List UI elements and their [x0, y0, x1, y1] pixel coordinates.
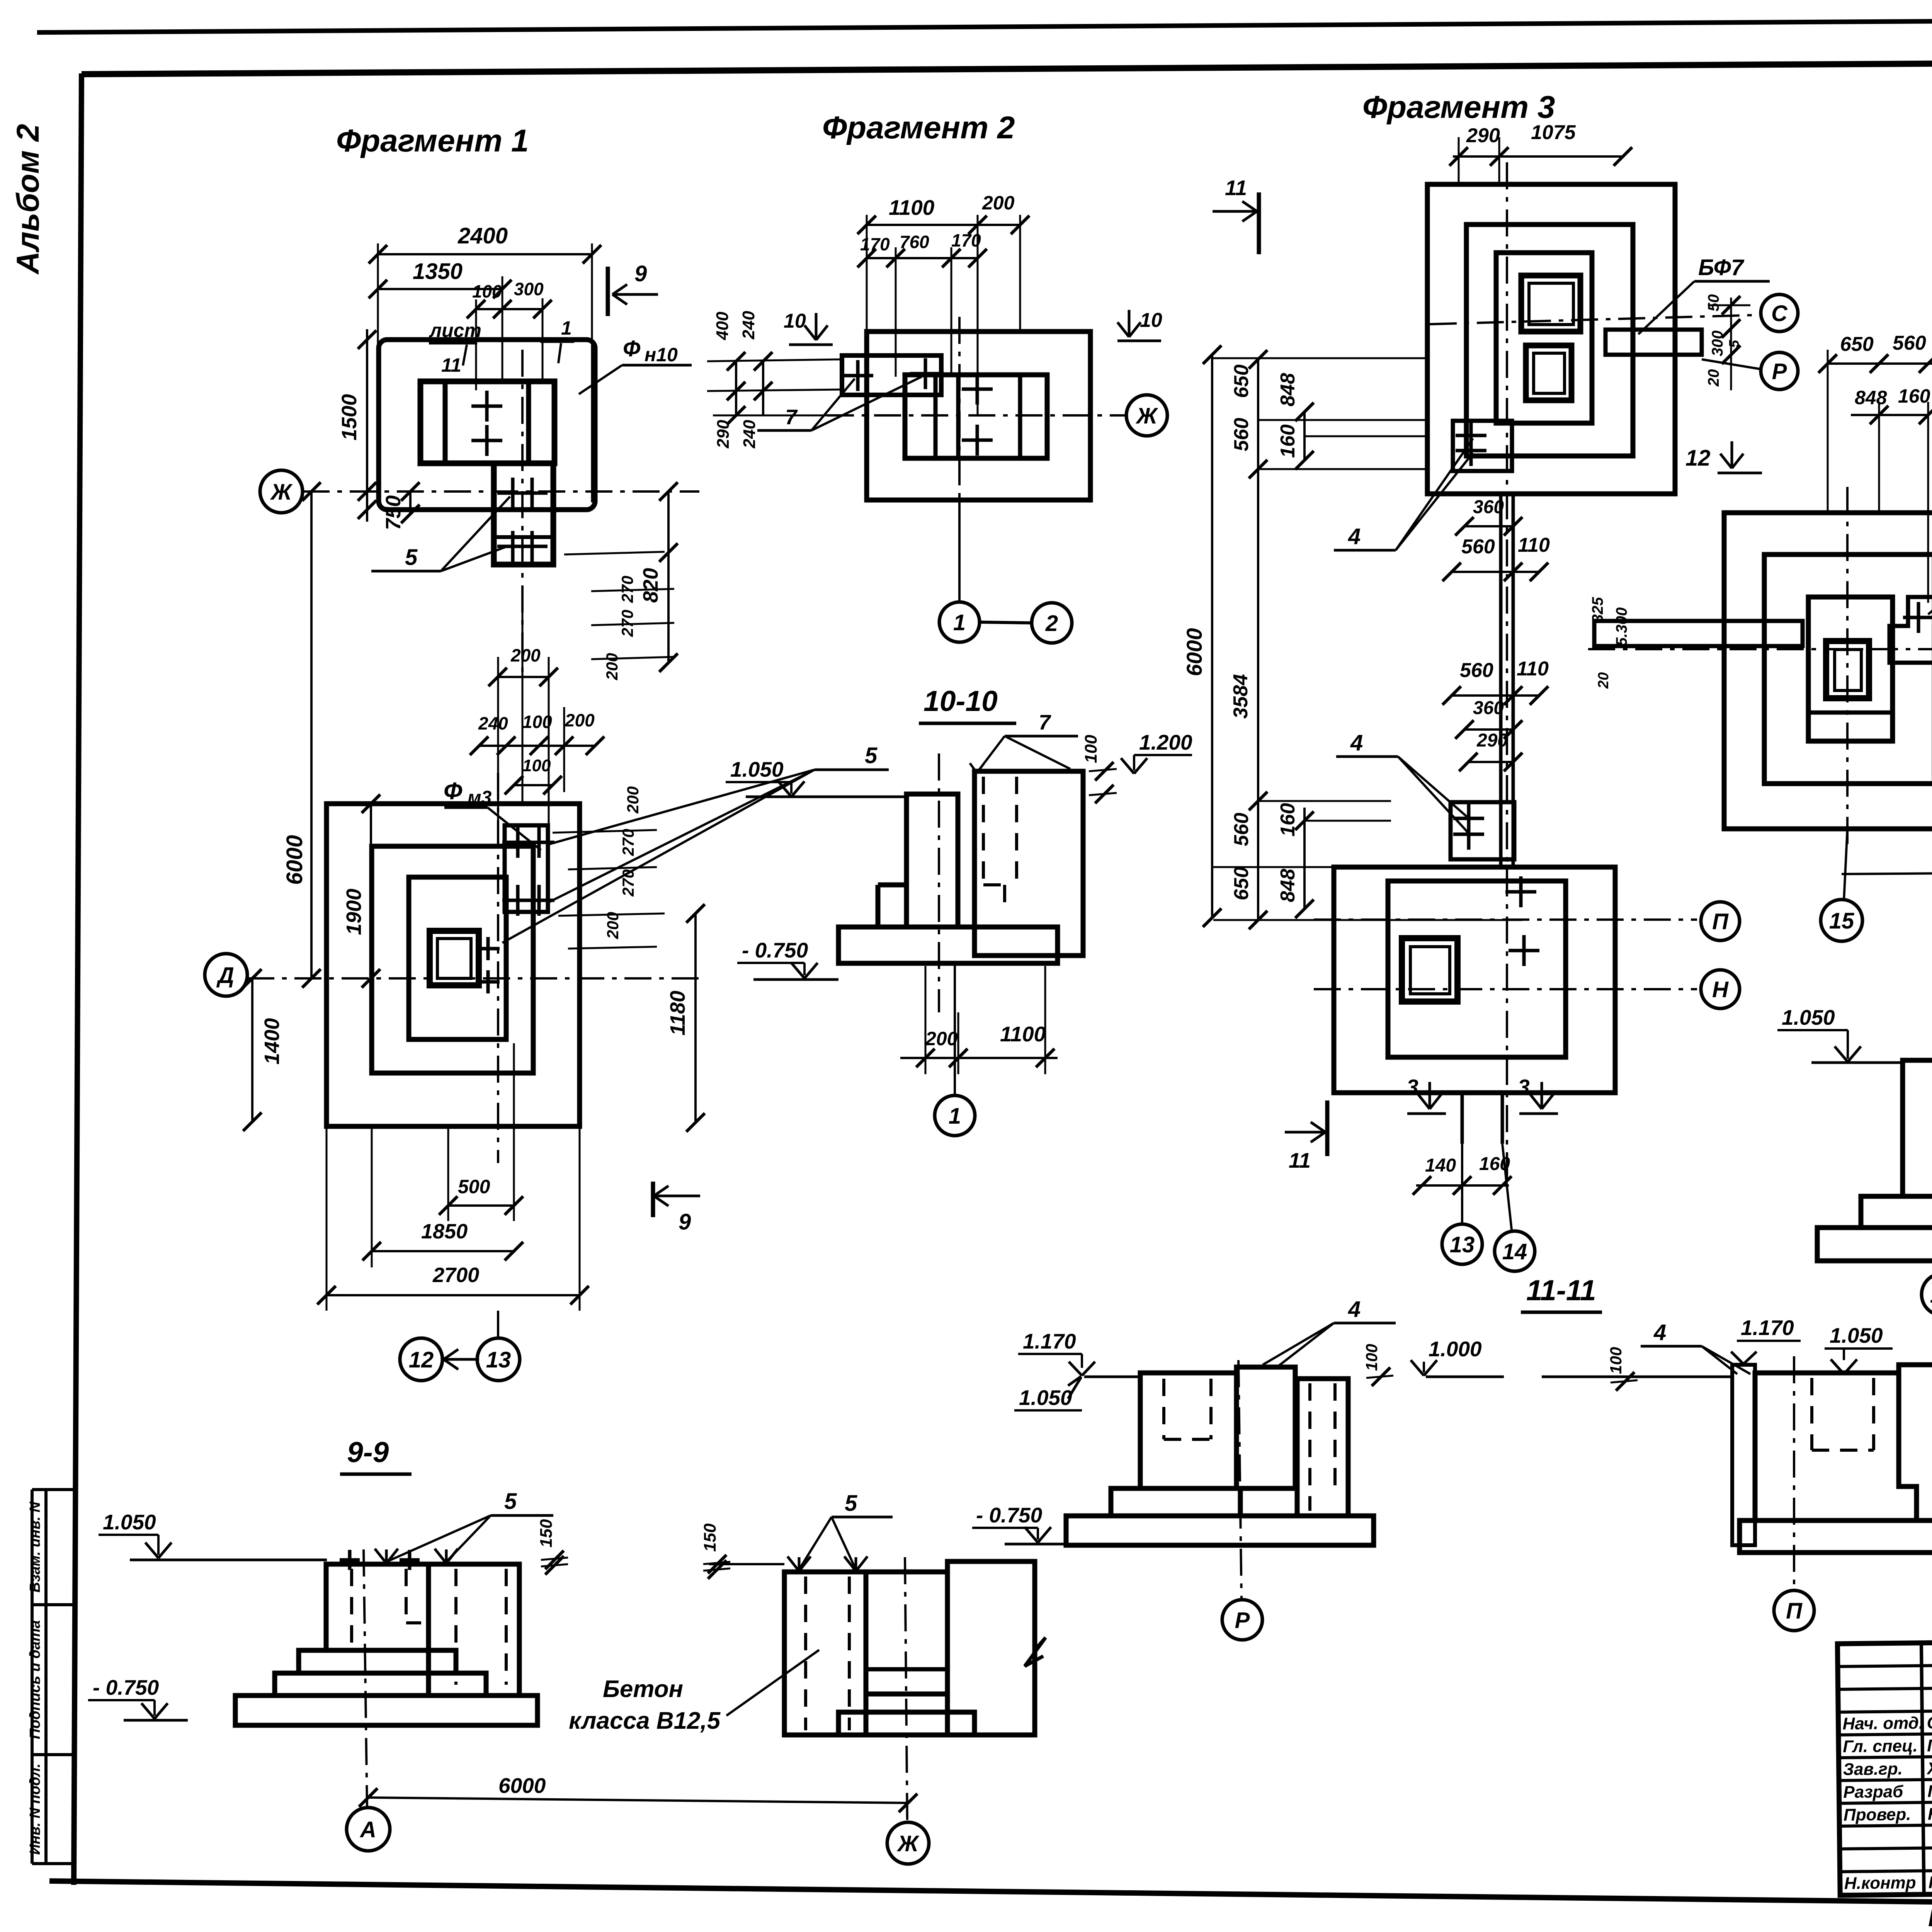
- F3 lower leg: [1461, 1093, 1464, 1144]
- svg-text:560: 560: [1893, 332, 1926, 354]
- svg-text:БФ7: БФ7: [1698, 255, 1745, 280]
- svg-text:13: 13: [486, 1347, 511, 1372]
- svg-text:10: 10: [1140, 309, 1162, 332]
- F3 vertical dim column 3: [1303, 412, 1306, 460]
- anchor bolts leg: [497, 492, 528, 495]
- frame left border: [74, 73, 82, 1885]
- Фм3 column void outer: [430, 931, 479, 985]
- svg-text:200: 200: [604, 912, 622, 939]
- svg-text:11: 11: [441, 354, 461, 376]
- axis circle П (11-11): [1774, 1590, 1814, 1631]
- svg-text:1350: 1350: [413, 259, 463, 284]
- 9-9 right left block: [784, 1572, 866, 1735]
- svg-text:Ж: Ж: [270, 480, 293, 505]
- svg-text:160: 160: [1277, 424, 1299, 458]
- axis circle 2: [1032, 603, 1072, 643]
- F4 left void outer: [1826, 641, 1869, 698]
- 9-9 step2: [275, 1673, 486, 1696]
- svg-text:5: 5: [504, 1489, 517, 1514]
- line to circle 15: [1844, 829, 1847, 900]
- svg-text:240: 240: [478, 713, 508, 733]
- F3 step2: [1466, 224, 1633, 456]
- svg-text:848: 848: [1855, 387, 1887, 408]
- svg-text:240: 240: [739, 311, 758, 340]
- svg-text:1100: 1100: [889, 196, 935, 219]
- F4 left anchor bolts: [1903, 616, 1932, 619]
- svg-text:1.170: 1.170: [1741, 1316, 1794, 1340]
- svg-text:6000: 6000: [498, 1774, 546, 1798]
- ground line (12-12 left): [1811, 1061, 1903, 1064]
- 11-11 П main block: [1755, 1373, 1917, 1520]
- svg-text:848: 848: [1277, 373, 1299, 406]
- axis circle Ж2: [1126, 395, 1167, 436]
- svg-text:1.050: 1.050: [103, 1510, 156, 1534]
- F3 anchor block: [1453, 421, 1512, 471]
- svg-text:360: 360: [1473, 698, 1504, 718]
- svg-text:11-11: 11-11: [1526, 1274, 1596, 1306]
- Н axis: [1314, 988, 1697, 990]
- svg-text:3: 3: [1518, 1075, 1530, 1099]
- 11-11 П base: [1740, 1520, 1932, 1553]
- right dim lines 270 270 200: [564, 552, 665, 554]
- F4 left plan step3: [1808, 597, 1893, 741]
- leg extension verticals: [497, 657, 499, 827]
- line to circle 1: [958, 500, 961, 602]
- svg-text:1.200: 1.200: [1139, 730, 1192, 754]
- 10-10 stakan dashed: [982, 777, 985, 885]
- F3 lower plan outer: [1334, 867, 1615, 1093]
- axis vertical fragment1: [521, 350, 524, 680]
- section marker 9 bottom: [651, 1182, 655, 1217]
- svg-text:лист: лист: [429, 320, 481, 341]
- svg-text:750: 750: [382, 495, 405, 530]
- svg-text:2700: 2700: [432, 1264, 479, 1287]
- svg-text:20: 20: [1705, 369, 1722, 387]
- paper top edge: [37, 17, 1932, 32]
- Фм3 column void inner: [437, 939, 471, 978]
- 11-11 right block dashes: [1308, 1383, 1311, 1511]
- 11-11 П tall block: [1899, 1365, 1932, 1553]
- inner block bolts: [962, 388, 993, 391]
- tall block break: [1025, 1638, 1046, 1666]
- svg-text:5: 5: [405, 545, 418, 570]
- 9-9 right base: [838, 1712, 975, 1735]
- svg-text:200: 200: [624, 786, 642, 814]
- F4 left anchor plate: [1889, 597, 1932, 663]
- Фм3 step 3: [409, 877, 506, 1039]
- 11-11 П axis: [1793, 1356, 1795, 1590]
- С axis line: [1430, 315, 1760, 324]
- Фн10 slab outline: [379, 340, 595, 510]
- svg-text:Н.контр: Н.контр: [1844, 1873, 1916, 1893]
- svg-text:м3: м3: [468, 787, 492, 808]
- axis circle Н: [1701, 970, 1740, 1009]
- svg-text:Д: Д: [216, 963, 234, 988]
- svg-text:1400: 1400: [260, 1018, 284, 1065]
- svg-text:290: 290: [1476, 730, 1508, 751]
- svg-text:Провер.: Провер.: [1844, 1805, 1911, 1825]
- svg-text:6000: 6000: [282, 835, 307, 885]
- anchor ticks top (9-9 left): [340, 1558, 360, 1562]
- F3 slab outer: [1427, 184, 1675, 494]
- svg-text:- 0.750: - 0.750: [976, 1503, 1043, 1527]
- svg-text:11: 11: [1289, 1148, 1311, 1172]
- svg-text:2400: 2400: [457, 223, 508, 248]
- svg-text:1.050: 1.050: [1019, 1386, 1072, 1410]
- Фм3 slab outer: [327, 804, 580, 1126]
- F3 void 2 inner: [1534, 353, 1565, 393]
- Fragment 2 inner block: [905, 375, 1047, 458]
- dim 1850: [372, 1250, 514, 1252]
- svg-text:650: 650: [1840, 333, 1874, 355]
- svg-text:- 0.750: - 0.750: [742, 938, 808, 962]
- П axis: [1314, 918, 1697, 921]
- svg-text:270: 270: [618, 610, 636, 637]
- svg-text:П: П: [1786, 1599, 1803, 1624]
- dim 2400: [378, 253, 592, 255]
- svg-text:200: 200: [510, 645, 541, 665]
- section marker 9 top: [606, 267, 610, 316]
- 9-9 right middle block: [866, 1572, 947, 1694]
- svg-text:560: 560: [1461, 536, 1495, 558]
- axis circle 1 (10-10): [935, 1095, 975, 1136]
- svg-text:14: 14: [1502, 1239, 1527, 1264]
- svg-text:1180: 1180: [666, 991, 689, 1036]
- 9-9 axis Ж: [905, 1557, 907, 1823]
- axis circle 13 (f3): [1442, 1224, 1482, 1264]
- callout 1: [540, 340, 574, 343]
- axis circle С: [1761, 294, 1798, 332]
- 11-11 left main block: [1140, 1373, 1236, 1488]
- frame bottom border: [49, 1881, 1932, 1910]
- svg-text:12: 12: [1685, 446, 1711, 471]
- svg-text:Альбом 2: Альбом 2: [10, 124, 46, 275]
- 11-11 П stakan dashed: [1810, 1378, 1813, 1450]
- svg-text:270: 270: [618, 576, 636, 603]
- svg-text:С: С: [1771, 301, 1788, 326]
- БФ7 beam: [1605, 330, 1702, 355]
- svg-text:1900: 1900: [342, 889, 366, 935]
- dim 6000 vertical: [310, 492, 313, 978]
- svg-text:1.050: 1.050: [730, 757, 784, 781]
- svg-text:10: 10: [784, 310, 806, 332]
- svg-text:150: 150: [537, 1519, 556, 1548]
- svg-text:А: А: [359, 1817, 376, 1842]
- axis circle Д: [205, 954, 247, 996]
- svg-text:200: 200: [565, 710, 595, 730]
- svg-text:560: 560: [1230, 813, 1253, 846]
- axis circle 13: [477, 1338, 520, 1381]
- ground line left (10-10): [746, 796, 906, 798]
- plate bolts: [842, 374, 873, 378]
- dim 6000 (9-9): [368, 1798, 908, 1803]
- F3 vertical dim column 2: [1257, 359, 1259, 920]
- Фм3 right dims 200 270 270: [553, 830, 657, 833]
- F3 anchor bolts: [1456, 434, 1486, 437]
- F3 void 1 outer: [1521, 276, 1580, 332]
- lines to circles 13 14: [1461, 1144, 1463, 1223]
- svg-text:- 0.750: - 0.750: [93, 1675, 159, 1699]
- svg-text:1.050: 1.050: [1782, 1005, 1835, 1029]
- F4 left void inner: [1835, 650, 1861, 690]
- svg-text:160: 160: [1898, 385, 1930, 407]
- svg-text:16: 16: [1930, 1282, 1932, 1308]
- 11-11 left stakan dashed: [1162, 1379, 1165, 1439]
- 10-10 axis: [938, 753, 940, 1012]
- dim 1900 left: [370, 804, 372, 978]
- fragment2 left dims: [707, 359, 842, 361]
- dim row 848 160: [1851, 414, 1928, 416]
- axis circle 12: [400, 1338, 442, 1381]
- svg-text:9: 9: [679, 1209, 691, 1235]
- 9-9 left dashes: [350, 1569, 353, 1645]
- svg-text:13: 13: [1450, 1232, 1475, 1257]
- svg-text:300: 300: [514, 279, 544, 299]
- svg-text:100: 100: [1362, 1344, 1381, 1371]
- foundation leg: [494, 463, 553, 565]
- axis circle 1: [939, 602, 980, 642]
- svg-text:325: 325: [1589, 597, 1606, 623]
- F3 lower plan inner: [1388, 881, 1566, 1057]
- svg-text:1500: 1500: [338, 394, 361, 440]
- 10-10 base slab: [838, 927, 1058, 963]
- 10-10 left column: [906, 794, 958, 927]
- svg-text:Зав.гр.: Зав.гр.: [1843, 1759, 1903, 1779]
- 9-9 left block: [326, 1564, 429, 1650]
- svg-text:П: П: [1712, 909, 1729, 934]
- svg-text:н10: н10: [645, 344, 678, 366]
- svg-text:9: 9: [634, 261, 647, 286]
- leg inner line: [495, 535, 552, 539]
- svg-text:1.050: 1.050: [1830, 1323, 1883, 1347]
- svg-text:200: 200: [925, 1028, 958, 1049]
- svg-text:200: 200: [603, 653, 621, 680]
- svg-text:5: 5: [865, 743, 878, 768]
- svg-text:класса В12,5: класса В12,5: [569, 1708, 721, 1734]
- svg-text:6000: 6000: [1182, 628, 1206, 676]
- dim row 3584 with 650 560: [1828, 362, 1932, 365]
- svg-text:290: 290: [714, 420, 733, 449]
- svg-text:20: 20: [1595, 672, 1612, 689]
- Фм3 anchor plate: [505, 825, 548, 912]
- svg-text:5: 5: [845, 1491, 857, 1516]
- svg-text:100: 100: [1082, 735, 1100, 763]
- axis vertical fragment2: [958, 317, 961, 500]
- svg-text:Взам. инв. N: Взам. инв. N: [27, 1501, 43, 1592]
- T-block divider left: [443, 381, 448, 463]
- dim extension verticals: [377, 243, 379, 346]
- F3 anchor block 2: [1451, 802, 1514, 859]
- svg-text:1075: 1075: [1531, 121, 1576, 144]
- dim 1400 left: [251, 978, 253, 1122]
- svg-text:Фрагмент 3: Фрагмент 3: [1362, 90, 1555, 125]
- axis circle 14 (f3): [1495, 1231, 1535, 1271]
- svg-text:Гл. спец.: Гл. спец.: [1843, 1736, 1918, 1756]
- dim 6000 (f4): [1842, 870, 1932, 874]
- svg-text:Р: Р: [1772, 359, 1787, 384]
- Fragment 2 anchor plate: [842, 355, 941, 395]
- 12-12 left step: [1861, 1196, 1932, 1228]
- svg-text:Ф: Ф: [444, 778, 463, 804]
- fragment2 dim verticals: [866, 215, 868, 332]
- 11-11 left axis: [1238, 1360, 1242, 1600]
- 11-11 right block: [1297, 1379, 1348, 1516]
- F3 lower void outer: [1402, 938, 1458, 1002]
- dim 1500 left: [366, 329, 368, 522]
- F3 vertical dim 6000: [1211, 355, 1213, 918]
- dim 100 300: [476, 308, 543, 310]
- 11-11 mid strip: [1236, 1367, 1295, 1488]
- axis circle А: [347, 1808, 390, 1851]
- svg-text:140: 140: [1425, 1155, 1456, 1176]
- 9-9 right block of pair: [429, 1564, 519, 1696]
- 11-11 left step: [1111, 1488, 1240, 1516]
- svg-text:Ф: Ф: [623, 336, 641, 361]
- 9-9 pair dashes: [454, 1569, 457, 1685]
- dim 1180 right: [694, 913, 697, 1122]
- foundation T-block top: [420, 381, 554, 463]
- svg-text:270: 270: [619, 869, 637, 897]
- ground line (9-9 left): [130, 1559, 327, 1561]
- 10-10 right block: [975, 771, 1083, 956]
- 10-10 step: [878, 883, 906, 888]
- svg-text:3584: 3584: [1230, 674, 1252, 719]
- svg-text:4: 4: [1348, 1297, 1361, 1322]
- svg-text:Разраб: Разраб: [1843, 1782, 1904, 1802]
- axis circle Р: [1761, 352, 1798, 389]
- frame top border: [82, 60, 1932, 74]
- svg-text:100: 100: [1607, 1347, 1625, 1374]
- F4 left axis horizontal: [1588, 648, 1932, 650]
- svg-text:1: 1: [561, 317, 572, 339]
- axis circle Р (11-11): [1222, 1600, 1262, 1640]
- Фм3 axis vertical: [497, 773, 499, 1163]
- svg-text:650: 650: [1230, 867, 1253, 900]
- svg-text:1850: 1850: [421, 1220, 468, 1243]
- svg-text:150: 150: [701, 1523, 719, 1552]
- svg-text:9-9: 9-9: [347, 1436, 389, 1468]
- Fragment 2 slab outline: [867, 332, 1090, 500]
- axis Ж2 horizontal: [827, 414, 1125, 417]
- svg-text:Котенко: Котенко: [1929, 1872, 1932, 1892]
- svg-text:110: 110: [1518, 534, 1550, 556]
- small bolts right of void: [476, 947, 500, 951]
- 9-9 right tall block: [947, 1561, 1035, 1735]
- svg-text:170: 170: [860, 234, 890, 254]
- svg-text:Н: Н: [1712, 977, 1729, 1002]
- svg-text:820: 820: [639, 568, 662, 603]
- axis Ж horizontal: [303, 490, 699, 493]
- Р axis line: [1702, 359, 1760, 369]
- axis circle 15: [1821, 900, 1862, 941]
- line to circle 1 (10-10): [954, 963, 956, 1095]
- Фм3 step 2: [372, 846, 533, 1073]
- 9-9 base: [235, 1696, 537, 1725]
- svg-text:11: 11: [1225, 176, 1247, 200]
- svg-text:760: 760: [900, 232, 929, 252]
- svg-text:200: 200: [982, 192, 1015, 214]
- F3 void 2 outer: [1526, 345, 1571, 400]
- 9-9 step1: [299, 1650, 456, 1673]
- svg-text:848: 848: [1277, 869, 1299, 902]
- svg-text:Р: Р: [1235, 1608, 1250, 1633]
- svg-text:110: 110: [1517, 658, 1549, 680]
- leg wall lines between plans: [1499, 494, 1503, 867]
- dim 1100 200: [867, 224, 1020, 226]
- 12-12 left base: [1817, 1228, 1932, 1261]
- axis circle Ж (9-9): [887, 1822, 929, 1864]
- title block signature table: [1837, 1641, 1932, 1895]
- F3 lower bolts: [1505, 890, 1536, 894]
- svg-text:1.000: 1.000: [1429, 1337, 1482, 1361]
- connector 1-2: [980, 622, 1032, 623]
- ground line (11-11 right): [1542, 1376, 1733, 1378]
- right side dim 820: [667, 492, 670, 663]
- F3 lower void inner: [1410, 947, 1450, 994]
- dim 750: [409, 492, 412, 514]
- 12-12 left column: [1903, 1060, 1932, 1196]
- F3 step3: [1496, 253, 1592, 423]
- section marker 11 bottom: [1285, 1131, 1325, 1134]
- svg-text:4: 4: [1350, 730, 1363, 755]
- dim 2700: [327, 1294, 580, 1296]
- 11-11 left base: [1066, 1516, 1374, 1545]
- svg-text:3: 3: [1406, 1075, 1418, 1099]
- svg-text:7: 7: [785, 405, 798, 429]
- section marker 11 top: [1213, 210, 1257, 213]
- svg-text:1100: 1100: [1000, 1022, 1046, 1046]
- Фм3 axis horizontal Д: [247, 977, 699, 980]
- left margin divider: [44, 1490, 48, 1864]
- middle inner line: [866, 1667, 947, 1672]
- svg-text:Юхтовская: Юхтовская: [1928, 1804, 1932, 1824]
- svg-text:7: 7: [1039, 710, 1051, 734]
- F3 central axis: [1506, 162, 1508, 1182]
- svg-text:Ж: Ж: [1135, 403, 1158, 429]
- svg-text:Нач. отд.: Нач. отд.: [1842, 1714, 1923, 1733]
- svg-text:1.170: 1.170: [1023, 1329, 1076, 1353]
- svg-text:270: 270: [619, 829, 637, 856]
- dim verticals f4: [1827, 350, 1829, 514]
- svg-text:Онуфриенко: Онуфриенко: [1927, 1713, 1932, 1733]
- left margin box horizontals: [32, 1488, 75, 1491]
- svg-text:160: 160: [1277, 803, 1299, 837]
- F4 left plan outer: [1724, 513, 1932, 829]
- svg-text:100: 100: [522, 756, 551, 775]
- F4 left step3 divider: [1808, 711, 1893, 715]
- axis circle П: [1701, 902, 1740, 940]
- svg-text:1: 1: [949, 1104, 961, 1129]
- F3 anchor bolts 2: [1453, 817, 1484, 820]
- svg-text:5.300: 5.300: [1613, 607, 1630, 646]
- svg-text:Гейдман: Гейдман: [1927, 1736, 1932, 1755]
- ground line (11-11 left): [1084, 1376, 1141, 1378]
- svg-text:500: 500: [458, 1176, 490, 1197]
- svg-text:560: 560: [1460, 659, 1493, 682]
- 11-11 П strip: [1732, 1365, 1755, 1545]
- dim 170 760 170: [867, 257, 978, 259]
- svg-text:100: 100: [472, 281, 502, 301]
- svg-text:560: 560: [1230, 418, 1253, 451]
- arrow between 12 13: [444, 1358, 479, 1361]
- svg-text:240: 240: [740, 420, 759, 449]
- F4 left axis vertical: [1846, 487, 1849, 850]
- axis circle Ж: [260, 470, 303, 513]
- svg-text:Фрагмент 2: Фрагмент 2: [822, 110, 1015, 145]
- Фм3 anchor bolts: [502, 841, 533, 844]
- svg-text:4: 4: [1653, 1320, 1666, 1345]
- svg-text:4: 4: [1348, 524, 1361, 549]
